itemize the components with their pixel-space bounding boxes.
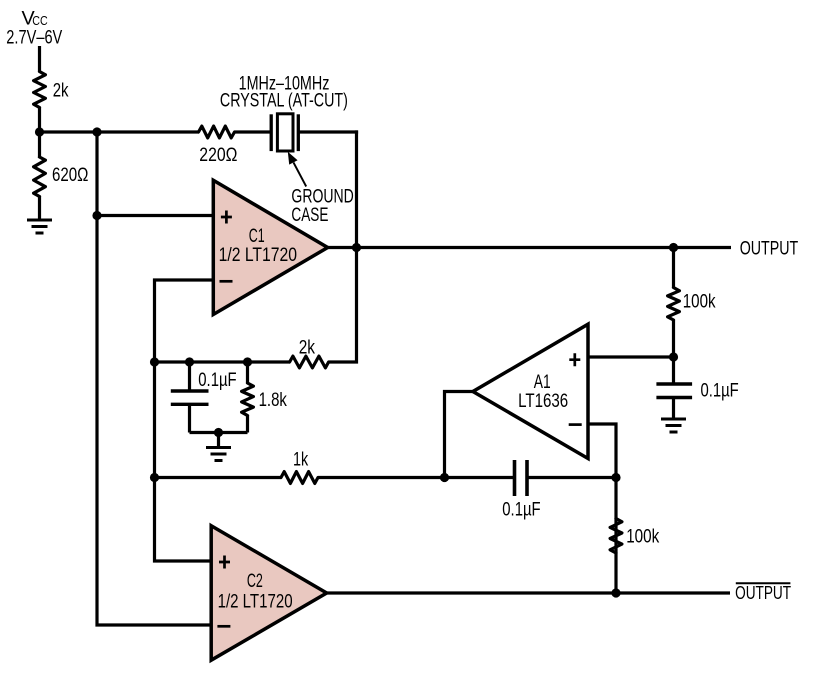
wire A1 minus to rail xyxy=(588,424,616,593)
svg-text:1/2 LT1720: 1/2 LT1720 xyxy=(219,244,297,266)
wire 1k to cap xyxy=(318,476,513,479)
node A junction dot xyxy=(35,127,44,136)
capacitor 0.1uF (A1 input) xyxy=(656,384,692,419)
wire feedback row xyxy=(155,360,291,363)
capacitor 0.1uF (integrator) xyxy=(515,460,528,496)
comparator C2 1/2 LT1720 xyxy=(211,526,327,661)
wire C1 output row xyxy=(328,246,731,249)
resistor 1.8k xyxy=(242,362,254,433)
svg-text:C2: C2 xyxy=(247,570,263,592)
junction dot feedback left xyxy=(150,357,159,366)
svg-text:2k: 2k xyxy=(53,79,69,101)
svg-text:620Ω: 620Ω xyxy=(52,164,88,186)
svg-text:CASE: CASE xyxy=(291,204,328,226)
junction dot feedback ground xyxy=(214,428,223,437)
wire Vcc stub xyxy=(38,46,41,72)
resistor 2k (feedback) xyxy=(290,356,329,368)
wire to ground (feedback) xyxy=(217,433,220,448)
wire top rail xyxy=(38,130,199,133)
capacitor 0.1uF (filter) xyxy=(171,362,209,433)
svg-text:LT1636: LT1636 xyxy=(518,390,568,412)
junction dot integrator cap right xyxy=(611,473,620,482)
C2 minus sign xyxy=(217,625,230,628)
svg-text:220Ω: 220Ω xyxy=(199,144,237,166)
wire C2 output row xyxy=(327,591,730,594)
svg-text:0.1µF: 0.1µF xyxy=(502,498,540,520)
wire 220 to crystal xyxy=(235,130,272,133)
wire left rail x97 xyxy=(97,132,211,625)
wire to C1 plus input xyxy=(97,214,213,217)
ground (A1 input cap) xyxy=(661,419,686,432)
wire 100k to cap xyxy=(672,320,675,384)
resistor 1k xyxy=(281,472,318,484)
wire 2k to node A xyxy=(38,108,41,133)
svg-text:0.1µF: 0.1µF xyxy=(701,379,739,401)
wire crystal corner down to 2k feedback xyxy=(329,130,357,362)
junction dot C1+ tap xyxy=(92,211,101,220)
label OUTPUT-bar xyxy=(735,582,791,603)
svg-text:OUTPUT: OUTPUT xyxy=(740,238,799,260)
junction dot A1 out-1k xyxy=(440,473,449,482)
svg-text:2k: 2k xyxy=(299,336,315,358)
wire 1k row left xyxy=(155,476,282,479)
junction dot node A-right xyxy=(92,127,101,136)
wire C1 minus to left xyxy=(155,280,214,561)
wire 620 to ground xyxy=(38,197,41,221)
C1 minus sign xyxy=(220,280,233,283)
wire cap to A1 minus rail xyxy=(529,476,617,479)
power label VCC xyxy=(22,8,49,30)
resistor 2k (Vcc) xyxy=(34,72,46,108)
crystal Y1 (AT-cut) xyxy=(271,114,298,151)
C1 plus sign xyxy=(221,211,232,224)
ground-case arrow xyxy=(288,152,306,187)
comparator C1 1/2 LT1720 xyxy=(213,180,327,314)
svg-text:100k: 100k xyxy=(683,290,716,312)
resistor 620ohm xyxy=(34,157,46,197)
resistor 220ohm xyxy=(199,126,235,138)
junction dot outputbar-100k xyxy=(611,588,620,597)
A1 plus sign xyxy=(569,353,580,366)
junction dot A1+ tap xyxy=(669,352,678,361)
wire to A1 plus input xyxy=(588,355,674,358)
junction dot 1k left xyxy=(150,473,159,482)
resistor 100k (bottom) xyxy=(610,519,622,554)
junction dot cap 0.1uF top xyxy=(185,357,194,366)
op-amp A1 LT1636 xyxy=(473,324,588,458)
C2 plus sign xyxy=(219,556,230,569)
wire output to 100k xyxy=(672,248,675,289)
svg-text:1k: 1k xyxy=(293,448,308,470)
svg-text:100k: 100k xyxy=(626,525,659,547)
svg-text:1.8k: 1.8k xyxy=(259,389,287,411)
wire crystal to corner xyxy=(298,130,358,133)
wire feedback bottom xyxy=(190,431,248,434)
resistor 100k (top) xyxy=(668,288,680,321)
svg-text:CRYSTAL (AT-CUT): CRYSTAL (AT-CUT) xyxy=(220,89,348,111)
svg-text:1/2 LT1720: 1/2 LT1720 xyxy=(218,590,293,612)
junction dot 1.8k top xyxy=(243,357,252,366)
svg-text:2.7V–6V: 2.7V–6V xyxy=(6,26,63,48)
A1 minus sign xyxy=(569,423,582,426)
ground (feedback) xyxy=(206,448,231,461)
svg-text:OUTPUT: OUTPUT xyxy=(735,582,791,603)
junction dot output-100k xyxy=(669,243,678,252)
junction dot C1 output xyxy=(352,243,361,252)
wire node A down to 620 xyxy=(38,132,41,158)
ground (620ohm) xyxy=(27,220,52,233)
wire A1 output xyxy=(445,392,473,478)
svg-text:0.1µF: 0.1µF xyxy=(198,369,236,391)
